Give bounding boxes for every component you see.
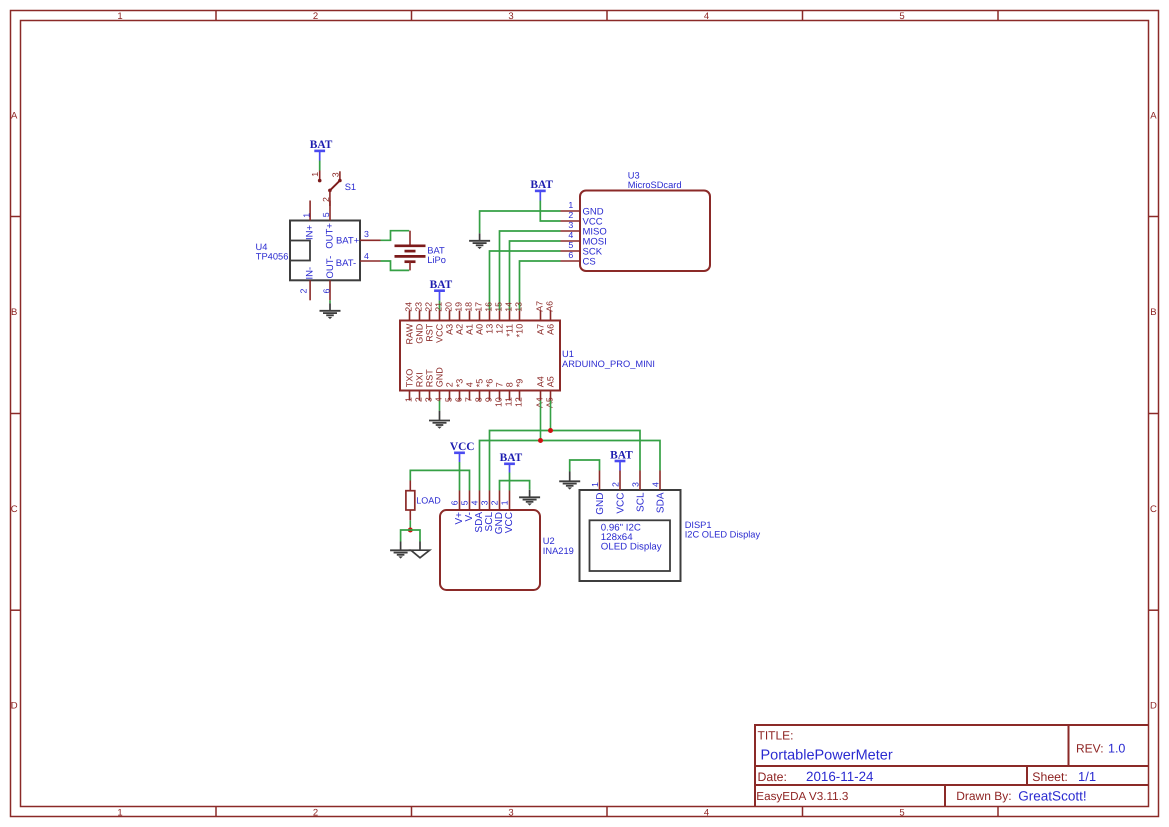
- ground (U3 GND): [469, 233, 490, 249]
- wire SDA bus (U2 SDA - DISP1 SDA): [480, 441, 661, 491]
- svg-text:A6: A6: [546, 324, 556, 335]
- svg-text:2: 2: [298, 288, 308, 293]
- svg-text:12: 12: [514, 397, 524, 407]
- svg-text:4: 4: [704, 807, 709, 818]
- label U2 INA219: [543, 536, 574, 556]
- U3 pin names: [583, 206, 607, 267]
- svg-text:10: 10: [494, 397, 504, 407]
- ground (DISP1 GND): [559, 472, 580, 490]
- svg-text:A: A: [1150, 111, 1157, 122]
- svg-text:U1: U1: [562, 349, 574, 359]
- ground (U2 GND): [519, 490, 540, 506]
- svg-text:BAT: BAT: [530, 179, 553, 191]
- battery value label BAT LiPo: [427, 245, 446, 265]
- DISP1 screen text: [601, 522, 662, 552]
- IC U2 INA219 body: [440, 510, 540, 590]
- svg-text:4: 4: [364, 251, 369, 261]
- svg-text:1: 1: [500, 500, 510, 505]
- IC U1 ARDUINO_PRO_MINI body: [400, 321, 560, 391]
- svg-text:A3: A3: [445, 324, 455, 335]
- net flag BAT: [310, 139, 333, 160]
- svg-text:16: 16: [484, 302, 494, 312]
- svg-text:U3: U3: [628, 171, 640, 181]
- wire BAT flag stem: [439, 300, 441, 310]
- svg-text:1: 1: [590, 482, 600, 487]
- svg-text:VCC: VCC: [504, 512, 515, 533]
- wire U1 A4 to SDA bus: [540, 401, 542, 441]
- svg-text:12: 12: [495, 324, 505, 334]
- svg-text:IN+: IN+: [304, 225, 315, 241]
- svg-text:1: 1: [310, 172, 320, 177]
- svg-text:1: 1: [302, 213, 312, 218]
- net flag BAT: [610, 449, 633, 470]
- svg-text:11: 11: [504, 397, 514, 406]
- switch S1 pin numbers: [310, 172, 340, 202]
- svg-text:5: 5: [899, 807, 904, 818]
- wire U3 MISO to U1 pin 15: [500, 231, 561, 311]
- svg-text:*5: *5: [475, 379, 485, 388]
- svg-text:PortablePowerMeter: PortablePowerMeter: [761, 747, 893, 763]
- svg-text:A1: A1: [465, 324, 475, 335]
- DISP1 pin names: [595, 492, 667, 515]
- svg-text:*11: *11: [505, 324, 515, 337]
- svg-text:U4: U4: [256, 242, 268, 252]
- svg-text:1: 1: [568, 200, 573, 210]
- svg-text:17: 17: [474, 302, 484, 312]
- U3 pins: [561, 211, 581, 261]
- wire to chassis ground (right): [410, 530, 420, 542]
- IC U4 TP4056 body: [290, 221, 360, 281]
- svg-text:4: 4: [650, 482, 660, 487]
- wire BAT to U3 VCC: [540, 201, 560, 222]
- junction LOAD ground node: [408, 528, 413, 533]
- svg-text:MicroSDcard: MicroSDcard: [628, 180, 682, 190]
- U1 pins: [410, 311, 551, 401]
- net flag VCC: [450, 441, 475, 462]
- svg-text:6: 6: [568, 250, 573, 260]
- svg-text:24: 24: [404, 302, 414, 312]
- svg-text:A0: A0: [475, 324, 485, 335]
- svg-text:5: 5: [460, 500, 470, 505]
- svg-text:EasyEDA V3.11.3: EasyEDA V3.11.3: [756, 790, 848, 803]
- svg-text:SCL: SCL: [636, 492, 647, 512]
- svg-text:D: D: [1150, 700, 1157, 711]
- svg-text:4: 4: [434, 397, 444, 402]
- label U4 TP4056: [256, 242, 289, 262]
- svg-text:13: 13: [485, 324, 495, 334]
- svg-text:A7: A7: [536, 324, 546, 335]
- svg-text:BAT: BAT: [427, 245, 445, 255]
- U1 pin numbers: [404, 301, 555, 408]
- svg-text:2: 2: [414, 397, 424, 402]
- svg-text:1: 1: [117, 807, 122, 818]
- svg-text:S1: S1: [345, 182, 356, 192]
- svg-text:BAT: BAT: [610, 449, 633, 461]
- svg-text:23: 23: [414, 302, 424, 312]
- svg-text:C: C: [11, 504, 18, 515]
- svg-text:2: 2: [313, 807, 318, 818]
- svg-text:RXI: RXI: [415, 372, 425, 387]
- svg-text:BAT+: BAT+: [336, 236, 360, 247]
- svg-text:GND: GND: [595, 493, 606, 515]
- label U3 MicroSDcard: [628, 171, 682, 191]
- svg-text:3: 3: [364, 229, 369, 239]
- svg-text:1/1: 1/1: [1078, 769, 1096, 784]
- junction A5/SCL: [548, 428, 553, 433]
- svg-text:8: 8: [505, 382, 515, 387]
- svg-text:CS: CS: [583, 256, 596, 267]
- wire SCL bus (U2 SCL - DISP1 SCL): [490, 431, 641, 491]
- svg-text:A4: A4: [536, 376, 546, 387]
- svg-text:3: 3: [630, 482, 640, 487]
- wire BAT flag stem: [509, 473, 511, 491]
- svg-text:RAW: RAW: [405, 323, 415, 344]
- net flag BAT: [430, 279, 453, 300]
- svg-text:7: 7: [495, 382, 505, 387]
- U1 pin names: [405, 323, 556, 387]
- svg-text:3: 3: [424, 397, 434, 402]
- switch S1: [318, 171, 342, 207]
- svg-text:VCC: VCC: [435, 323, 445, 343]
- IC U3 MicroSDcard body: [580, 191, 710, 272]
- wire U2 V- to LOAD: [410, 470, 469, 490]
- svg-text:5: 5: [321, 212, 331, 217]
- svg-text:7: 7: [464, 397, 474, 402]
- svg-text:15: 15: [494, 302, 504, 312]
- wire U3 CS to U1 pin 13: [520, 261, 561, 311]
- net flag BAT: [530, 179, 553, 200]
- svg-text:6: 6: [454, 397, 464, 402]
- svg-text:TXO: TXO: [405, 369, 415, 388]
- svg-text:20: 20: [444, 302, 454, 312]
- ground (U4 OUT-): [320, 303, 341, 319]
- wire U3 MOSI to U1 pin 14: [510, 241, 561, 311]
- svg-text:TP4056: TP4056: [256, 252, 289, 262]
- wire U3 SCK to U1 pin 16: [490, 251, 561, 311]
- svg-text:RST: RST: [425, 323, 435, 342]
- svg-text:4: 4: [465, 382, 475, 387]
- svg-text:*9: *9: [515, 379, 525, 388]
- svg-text:VCC: VCC: [616, 493, 627, 514]
- svg-text:3: 3: [508, 807, 513, 818]
- wire DISP1 GND to ground: [570, 460, 600, 472]
- wire U1 A5 to SCL bus: [550, 401, 552, 431]
- chassis ground (LOAD right): [411, 542, 430, 558]
- svg-text:GND: GND: [415, 323, 425, 344]
- wire U4 OUT- to ground: [329, 300, 331, 303]
- U4 pins: [310, 201, 380, 301]
- battery BAT LiPo: [395, 231, 426, 271]
- svg-text:Sheet:: Sheet:: [1032, 770, 1068, 784]
- svg-text:GreatScott!: GreatScott!: [1018, 789, 1086, 804]
- ground (U1 GND): [429, 411, 450, 429]
- svg-text:2: 2: [610, 482, 620, 487]
- svg-text:REV:: REV:: [1076, 742, 1104, 756]
- wire U4 BAT+ to battery +: [381, 231, 410, 241]
- svg-text:5: 5: [568, 240, 573, 250]
- wire to ground (left): [401, 530, 411, 542]
- svg-text:OUT-: OUT-: [325, 256, 336, 279]
- resistor LOAD: [406, 481, 415, 521]
- svg-text:19: 19: [454, 302, 464, 312]
- svg-text:A6: A6: [545, 301, 555, 312]
- svg-text:Date:: Date:: [758, 770, 787, 784]
- svg-text:1: 1: [117, 11, 122, 22]
- svg-text:A2: A2: [455, 324, 465, 335]
- svg-text:D: D: [11, 700, 18, 711]
- svg-text:*10: *10: [515, 324, 525, 338]
- svg-text:4: 4: [568, 230, 573, 240]
- wire LOAD to ground node: [409, 520, 411, 530]
- svg-text:*6: *6: [485, 379, 495, 388]
- svg-text:4: 4: [470, 500, 480, 505]
- svg-text:2: 2: [568, 210, 573, 220]
- svg-text:RST: RST: [425, 369, 435, 388]
- svg-text:ARDUINO_PRO_MINI: ARDUINO_PRO_MINI: [562, 359, 655, 369]
- svg-text:21: 21: [434, 302, 444, 312]
- wire U3 GND to ground: [480, 211, 561, 233]
- svg-text:GND: GND: [435, 367, 445, 388]
- svg-text:3: 3: [331, 172, 341, 177]
- svg-text:LOAD: LOAD: [416, 496, 441, 506]
- U3 pin numbers: [568, 200, 573, 260]
- net flag BAT: [500, 452, 523, 472]
- svg-text:2: 2: [490, 500, 500, 505]
- svg-text:A5: A5: [546, 376, 556, 387]
- svg-text:18: 18: [464, 302, 474, 312]
- junction A4/SDA: [538, 438, 543, 443]
- svg-text:13: 13: [514, 302, 524, 312]
- wire U4 BAT- to battery -: [381, 261, 410, 270]
- DISP1 pin numbers: [590, 482, 661, 487]
- svg-text:2: 2: [313, 11, 318, 22]
- svg-text:4: 4: [704, 11, 709, 22]
- svg-text:OLED Display: OLED Display: [601, 542, 662, 553]
- svg-text:14: 14: [504, 302, 514, 312]
- svg-text:A5: A5: [545, 397, 555, 408]
- U2 pin numbers: [450, 500, 510, 505]
- svg-text:I2C OLED Display: I2C OLED Display: [685, 530, 761, 540]
- svg-text:BAT-: BAT-: [336, 258, 356, 269]
- svg-text:SDA: SDA: [656, 492, 667, 513]
- svg-text:A: A: [11, 111, 18, 122]
- svg-text:3: 3: [508, 11, 513, 22]
- label DISP1 I2C OLED Display: [685, 520, 761, 540]
- svg-text:DISP1: DISP1: [685, 520, 712, 530]
- svg-text:5: 5: [444, 397, 454, 402]
- svg-text:9: 9: [484, 397, 494, 402]
- svg-text:A4: A4: [535, 397, 545, 408]
- svg-text:6: 6: [450, 500, 460, 505]
- svg-text:BAT: BAT: [310, 139, 333, 151]
- svg-text:8: 8: [474, 397, 484, 402]
- svg-text:*3: *3: [455, 379, 465, 388]
- svg-text:3: 3: [480, 500, 490, 505]
- svg-text:5: 5: [899, 11, 904, 22]
- DISP1 pins: [600, 471, 661, 491]
- label U1 ARDUINO_PRO_MINI: [562, 349, 655, 369]
- svg-text:2: 2: [445, 382, 455, 387]
- svg-text:BAT: BAT: [430, 279, 453, 291]
- svg-text:U2: U2: [543, 536, 555, 546]
- svg-text:1: 1: [404, 397, 414, 402]
- svg-text:TITLE:: TITLE:: [758, 728, 794, 742]
- svg-text:LiPo: LiPo: [427, 255, 446, 265]
- svg-text:2016-11-24: 2016-11-24: [806, 769, 874, 784]
- svg-text:3: 3: [568, 220, 573, 230]
- svg-text:6: 6: [321, 289, 331, 294]
- U4 pin names: [304, 223, 359, 280]
- svg-text:22: 22: [424, 302, 434, 312]
- svg-text:BAT: BAT: [500, 452, 523, 464]
- display DISP1 body: [580, 490, 681, 581]
- U2 pins: [460, 491, 510, 511]
- wire BAT flag stem: [319, 161, 321, 171]
- svg-text:INA219: INA219: [543, 546, 574, 556]
- U2 pin names: [454, 512, 515, 535]
- wire U2 GND to ground: [500, 481, 530, 491]
- svg-text:Drawn By:: Drawn By:: [956, 789, 1011, 803]
- svg-text:VCC: VCC: [450, 441, 475, 453]
- svg-text:C: C: [1150, 504, 1157, 515]
- U4 pin numbers: [298, 212, 369, 293]
- svg-text:B: B: [11, 307, 17, 318]
- svg-text:B: B: [1150, 307, 1156, 318]
- wire VCC flag stem: [459, 462, 461, 491]
- svg-text:A7: A7: [535, 301, 545, 312]
- svg-text:IN-: IN-: [305, 267, 316, 280]
- ground (LOAD left): [390, 542, 411, 559]
- wire U1 GND to ground: [439, 401, 441, 411]
- svg-text:OUT+: OUT+: [325, 223, 336, 249]
- svg-text:1.0: 1.0: [1108, 742, 1125, 756]
